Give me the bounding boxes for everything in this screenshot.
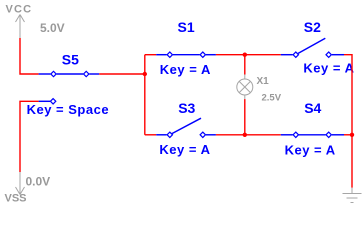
svg-text:Key = A: Key = A (303, 60, 354, 75)
switch S1 (SPST closed, Key = A) (156, 52, 216, 57)
wire S5 throw2 to VSS (20, 101, 39, 172)
svg-text:S1: S1 (178, 19, 195, 35)
wire row2 left (145, 134, 156, 136)
wire lamp branch upper (244, 55, 246, 75)
svg-text:VCC: VCC (6, 4, 33, 16)
junction row1 / lamp branch (243, 53, 247, 57)
switch S5 (SPDT, Key = Space) (39, 71, 100, 104)
svg-text:S4: S4 (304, 100, 321, 116)
wire S5 common to left bus (99, 73, 145, 75)
svg-text:X1: X1 (257, 76, 270, 87)
svg-text:S5: S5 (62, 51, 79, 67)
junction row2 / lamp branch (243, 133, 247, 137)
switch S2 (SPST open, Key = A) (281, 38, 344, 57)
wire row1 right to right bus (344, 55, 352, 135)
power VSS (16, 172, 25, 195)
switch S4 (SPST closed, Key = A) (281, 132, 344, 137)
svg-text:5.0V: 5.0V (40, 21, 65, 35)
lamp X1 (237, 75, 253, 100)
switch S3 (SPST open, Key = A) (156, 118, 216, 137)
svg-text:S3: S3 (178, 100, 195, 116)
svg-text:Key = Space: Key = Space (27, 102, 109, 117)
power VCC (16, 15, 25, 39)
wire left bus (144, 55, 146, 135)
svg-text:Key = A: Key = A (285, 143, 336, 158)
svg-text:S2: S2 (304, 19, 321, 35)
svg-text:2.5V: 2.5V (262, 93, 282, 104)
wire lamp branch lower (244, 99, 246, 135)
wire row2 S3 to mid junction (216, 134, 281, 136)
svg-text:0.0V: 0.0V (26, 175, 51, 189)
wire VCC to S5 throw1 (20, 38, 39, 74)
wire right bus to ground (351, 135, 353, 188)
ground (343, 188, 362, 203)
wire row2 right (344, 134, 352, 136)
svg-text:Key = A: Key = A (159, 142, 210, 157)
svg-text:VSS: VSS (5, 193, 27, 205)
junction right bus / row2 (350, 133, 354, 137)
wire row1 left (145, 54, 156, 56)
wire row1 S1 to mid junction (216, 54, 281, 56)
junction S5 / left bus (143, 72, 147, 76)
svg-text:Key = A: Key = A (160, 62, 211, 77)
